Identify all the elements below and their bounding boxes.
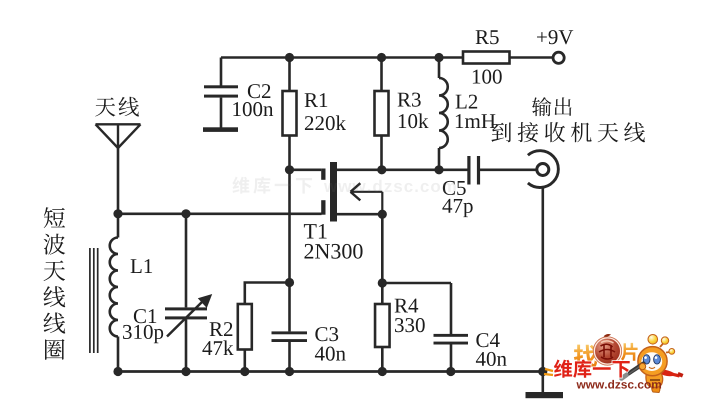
label L2 <box>456 95 478 109</box>
terminal +9V <box>553 52 564 63</box>
node ground rail / C4 <box>446 367 455 376</box>
logo chip emblem <box>593 334 621 365</box>
label C5 <box>443 181 466 195</box>
label R2 <box>210 322 233 336</box>
capacitor C3 <box>272 283 308 372</box>
value R2 47k <box>202 340 233 355</box>
label R5 <box>476 30 499 44</box>
node ground rail / R2 <box>240 367 249 376</box>
value C4 40n <box>476 352 507 366</box>
decor <box>232 177 455 194</box>
logo char zhao <box>574 345 597 368</box>
node antenna / L1 / gate rail <box>113 209 122 218</box>
wire drain rail <box>337 169 468 172</box>
wire source lead <box>337 213 382 216</box>
value C5 47p <box>442 199 472 217</box>
node top rail / R3 <box>377 53 386 62</box>
logo char pian <box>621 343 638 361</box>
value C3 40n <box>315 347 346 361</box>
capacitor C2 <box>203 58 238 132</box>
node ground rail / C1 <box>181 367 190 376</box>
value C2 100n <box>233 102 273 116</box>
output jack J1 <box>528 151 558 392</box>
label T1 <box>304 224 327 239</box>
transistor T1 gate-1 electrode <box>321 200 325 215</box>
ground <box>526 392 564 398</box>
wire R1-gate2 node to R2/C3 node <box>288 170 291 283</box>
node gate-2 bias <box>285 165 294 174</box>
node top rail / L2 <box>434 53 443 62</box>
wire gate-2 lead <box>290 169 322 172</box>
resistor R5 <box>463 52 553 64</box>
antenna symbol <box>96 124 141 214</box>
logo text weiku-yixia <box>554 360 630 378</box>
value R4 330 <box>395 318 425 332</box>
node ground rail / L1 <box>113 367 122 376</box>
node source <box>378 210 387 219</box>
label output (shu chu) <box>532 97 572 116</box>
resistor R1 <box>283 58 297 170</box>
capacitor C5 <box>467 156 536 185</box>
node drain / L2 <box>434 165 443 174</box>
label R1 <box>305 93 328 107</box>
capacitor C4 <box>382 283 468 372</box>
label C4 <box>476 333 499 347</box>
capacitor C1 (variable) <box>165 214 212 372</box>
label +9V <box>537 30 573 44</box>
value C1 310p <box>123 325 163 343</box>
resistor R3 <box>375 58 389 170</box>
resistor R2 <box>238 283 290 372</box>
label R3 <box>398 93 421 107</box>
node ground rail / output <box>538 367 547 376</box>
transistor T1 substrate arrow <box>351 183 383 214</box>
value T1 2N300 <box>304 244 362 259</box>
node C1 / gate rail <box>181 209 190 218</box>
label L1 <box>131 259 152 273</box>
iron core of L1 <box>90 248 98 353</box>
value L2 1mH <box>456 114 496 128</box>
node R2 / C3 <box>285 278 294 287</box>
value R3 10k <box>399 113 429 128</box>
node top rail / R1 <box>285 53 294 62</box>
label antenna (tian xian) <box>95 97 139 117</box>
label R4 <box>395 299 419 313</box>
label C2 <box>248 84 270 98</box>
label shortwave antenna coil (vertical) <box>44 207 66 359</box>
decor <box>544 369 553 375</box>
label to receiver antenna <box>491 122 645 142</box>
wire source to R4/C4 node <box>381 214 384 304</box>
node ground rail / R4 <box>378 367 387 376</box>
node drain / R3 <box>377 165 386 174</box>
inductor L2 <box>439 58 448 170</box>
wire gate-1 rail <box>118 213 322 216</box>
wire top supply rail <box>221 56 463 59</box>
logo mascot <box>622 335 684 393</box>
logo url www.dzsc.com <box>576 380 661 389</box>
node ground rail / C3 <box>285 367 294 376</box>
value R5 100 <box>473 70 502 84</box>
transistor T1 channel bar <box>330 162 337 222</box>
label C1 <box>134 309 156 323</box>
wire ground rail <box>118 370 543 373</box>
inductor L1 <box>110 214 118 372</box>
label C3 <box>315 327 338 341</box>
value R1 220k <box>305 115 346 130</box>
transistor T1 gate-2 electrode <box>321 169 325 180</box>
resistor R4 <box>375 304 390 372</box>
node R4 / C4 <box>378 278 387 287</box>
